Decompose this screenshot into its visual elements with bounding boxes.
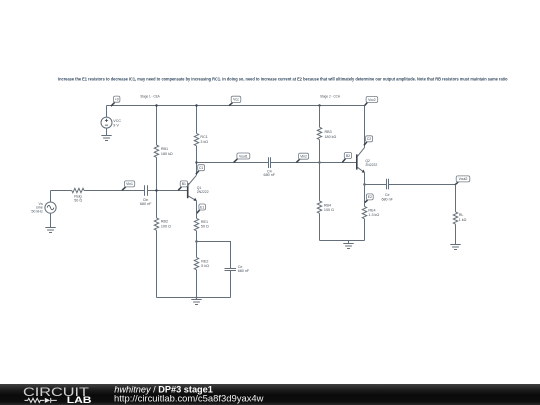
label Ce stage2	[381, 193, 393, 201]
svg-text:E2: E2	[368, 195, 372, 199]
wire top supply rail	[107, 105, 365, 107]
svg-text:RE1: RE1	[201, 220, 208, 224]
flag C2	[364, 136, 373, 146]
svg-text:C1: C1	[199, 166, 203, 170]
capacitor Cin	[145, 185, 188, 196]
svg-text:Vout1: Vout1	[239, 154, 248, 158]
svg-text:3 kΩ: 3 kΩ	[200, 140, 208, 144]
capacitor Ce stage2	[365, 179, 456, 190]
svg-text:50 Ω: 50 Ω	[74, 198, 82, 202]
svg-text:VCC: VCC	[113, 119, 121, 123]
transistor Q1 2N2222	[188, 175, 197, 201]
wire bottom rail stage2	[320, 240, 365, 242]
label C4	[264, 169, 276, 177]
label V1 value	[113, 119, 121, 128]
svg-text:680 nF: 680 nF	[238, 269, 250, 273]
resistor RE2	[194, 242, 198, 298]
label Q1	[197, 186, 209, 194]
svg-text:Vcc2: Vcc2	[368, 98, 376, 102]
svg-text:Vin2: Vin2	[300, 154, 307, 158]
label RB4	[324, 203, 334, 211]
label RL	[459, 213, 467, 222]
svg-text:RC1: RC1	[200, 135, 207, 139]
svg-text:http://circuitlab.com/c5a8f3d9: http://circuitlab.com/c5a8f3d9yax4w	[114, 394, 264, 404]
resistor RL	[453, 185, 457, 245]
ground RL	[450, 245, 460, 250]
footer bar	[0, 384, 540, 405]
capacitor Ce bypass stage1	[197, 242, 237, 298]
label Ce stage1	[238, 265, 250, 273]
svg-text:180 kΩ: 180 kΩ	[325, 135, 337, 139]
node dot RB3 top	[318, 104, 320, 106]
flag Vcc	[229, 96, 241, 106]
source Vs sine	[45, 191, 56, 228]
flag B1	[178, 181, 187, 190]
svg-text:680 nF: 680 nF	[140, 202, 152, 206]
svg-text:9 V: 9 V	[113, 123, 119, 127]
node dot Vin2/RB tee	[318, 161, 320, 163]
label Vs value	[31, 202, 43, 214]
label RB2	[161, 220, 171, 229]
svg-text:1 kΩ: 1 kΩ	[459, 218, 467, 222]
wire bottom rail stage1	[157, 297, 231, 299]
transistor Q2 2N2222	[357, 106, 365, 207]
wire Vout1 line	[197, 162, 269, 164]
capacitor C4	[269, 157, 357, 168]
flag +9 net	[111, 96, 120, 106]
node dot RB1 top	[155, 104, 157, 106]
resistor RB1	[154, 106, 158, 191]
svg-text:B2: B2	[346, 154, 350, 158]
node dot RC1 top	[195, 104, 197, 106]
svg-text:Stage 2 - CCA: Stage 2 - CCA	[320, 93, 340, 98]
label RE4	[368, 208, 379, 216]
svg-text:B1: B1	[182, 182, 186, 186]
resistor RC1	[194, 106, 198, 176]
flag B2	[342, 153, 351, 163]
resistor RE4	[362, 206, 366, 240]
label RB3	[325, 130, 337, 139]
svg-text:+9: +9	[115, 97, 119, 101]
svg-text:100 Ω: 100 Ω	[161, 225, 171, 229]
resistor RB2	[154, 191, 158, 298]
ground for Vs	[45, 228, 55, 233]
label RE1	[201, 220, 209, 228]
svg-text:RB1: RB1	[161, 147, 168, 151]
svg-text:50 Ω: 50 Ω	[201, 224, 209, 228]
svg-text:2N2222: 2N2222	[365, 163, 377, 167]
flag Vout1	[234, 153, 250, 162]
label Q2	[365, 159, 377, 167]
svg-text:RB4: RB4	[324, 203, 331, 207]
svg-text:5 kΩ: 5 kΩ	[201, 264, 209, 268]
svg-text:RE2: RE2	[201, 259, 208, 263]
svg-text:RB2: RB2	[161, 220, 168, 224]
node dot gnd1	[196, 297, 198, 299]
flag C1	[196, 165, 205, 175]
svg-text:E1: E1	[200, 205, 204, 209]
resistor RE1	[194, 201, 198, 242]
node dot collector C1 tee	[195, 161, 197, 163]
label Rsig	[74, 195, 82, 203]
flag Vin1	[122, 181, 135, 190]
flag E2	[365, 194, 373, 203]
svg-text:RB3: RB3	[325, 130, 332, 134]
resistor RB3	[317, 106, 321, 163]
svg-text:680 nF: 680 nF	[264, 173, 276, 177]
flag Vcc2	[365, 97, 378, 106]
svg-text:Vout2: Vout2	[459, 177, 468, 181]
flag E1	[197, 204, 206, 213]
node dot base B1	[155, 189, 157, 191]
svg-text:RE4: RE4	[368, 208, 375, 212]
ground stage2	[343, 244, 353, 249]
resistor Rsig	[51, 188, 145, 192]
flag Vin2	[296, 153, 308, 162]
svg-text:Increase the E1 resistors to d: Increase the E1 resistors to decrease IC…	[58, 77, 508, 82]
svg-text:C2: C2	[367, 137, 371, 141]
node dot E2 tee	[363, 183, 365, 185]
resistor RB4	[317, 163, 321, 241]
label RE2	[201, 259, 209, 267]
node dot E1 divider	[195, 240, 197, 242]
label Cin	[140, 198, 152, 206]
svg-text:Vin1: Vin1	[126, 182, 133, 186]
svg-text:Stage 1 - CEA: Stage 1 - CEA	[140, 94, 160, 99]
ground stage1	[191, 300, 201, 305]
svg-text:RL: RL	[459, 213, 464, 217]
voltage source V1 VCC	[101, 106, 112, 136]
ground for V1	[101, 136, 111, 141]
svg-text:LAB: LAB	[67, 394, 92, 405]
svg-text:680 nF: 680 nF	[381, 197, 393, 201]
svg-text:2N2222: 2N2222	[197, 190, 209, 194]
svg-text:Ce: Ce	[385, 193, 390, 197]
svg-text:50 kHz: 50 kHz	[31, 210, 43, 214]
svg-text:1.3 kΩ: 1.3 kΩ	[368, 213, 379, 217]
label RC1	[200, 135, 208, 144]
flag Vout2	[455, 176, 470, 185]
label RB1	[161, 147, 173, 156]
svg-text:Vcc: Vcc	[233, 98, 239, 102]
svg-text:180 kΩ: 180 kΩ	[161, 152, 173, 156]
CircuitLab logo resistor-diode glyph	[25, 398, 57, 403]
svg-text:100 Ω: 100 Ω	[324, 208, 334, 212]
